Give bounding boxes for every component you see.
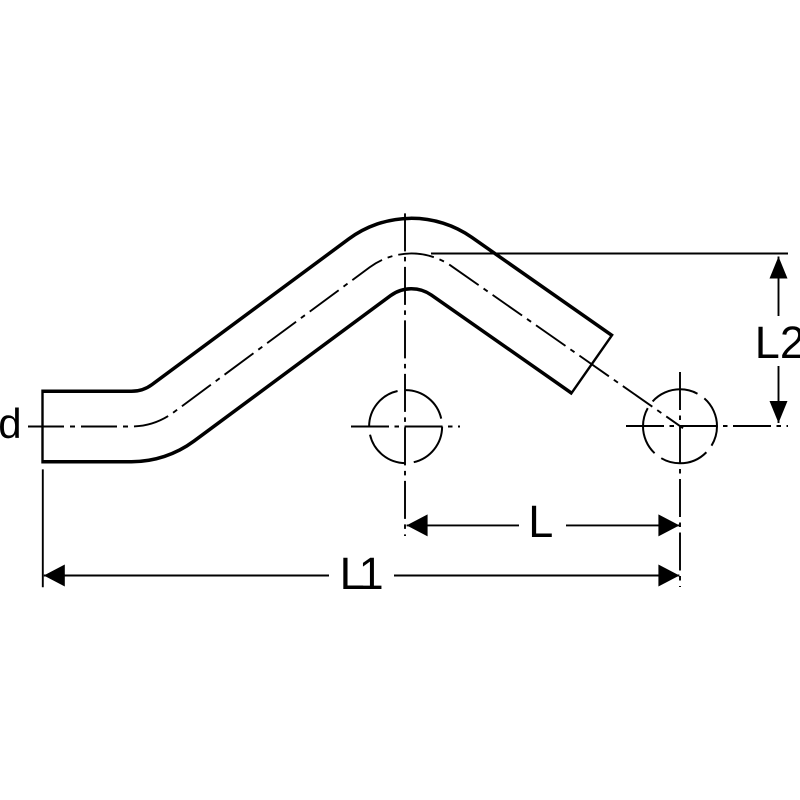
left circle (dashed) — [369, 390, 442, 463]
arrow L2 top — [770, 257, 788, 279]
svg-text:d: d — [0, 400, 22, 447]
pipe crossover bend outline (black band) — [41, 254, 592, 427]
dimension line L1 (horizontal) — [44, 575, 329, 577]
arrow L1 left — [44, 565, 65, 587]
left circle horizontal crosshair — [351, 426, 460, 428]
pipe interior (white band) — [44, 254, 591, 427]
arrow L right — [658, 514, 679, 536]
dimension line L2 (vertical) — [778, 257, 780, 317]
right circle horizontal crosshair — [626, 425, 788, 427]
svg-text:L1: L1 — [340, 548, 384, 599]
L2 extension line from apex centerline — [431, 253, 788, 255]
vertical centerline through left circle — [404, 213, 406, 536]
right circle vertical centerline / extension — [679, 372, 681, 587]
arrow L1 right — [658, 565, 679, 587]
dimension line L (horizontal) — [407, 524, 519, 526]
pipe axis centerline (dash-dot) — [28, 254, 683, 429]
arrow L2 bottom — [770, 401, 788, 423]
svg-text:L2: L2 — [755, 317, 800, 368]
right circle (dashed) — [643, 389, 717, 463]
arrow L left — [407, 514, 428, 536]
svg-text:L: L — [528, 496, 553, 547]
left extension line for L1 — [42, 469, 44, 587]
